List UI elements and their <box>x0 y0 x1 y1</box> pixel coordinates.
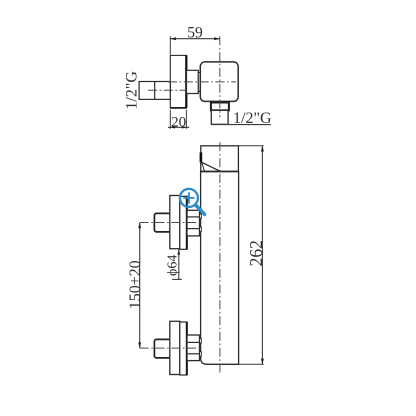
inlet pipe thread division <box>154 82 156 100</box>
top nut facet line upper <box>187 216 200 218</box>
bottom collar strip thick edge <box>186 322 188 375</box>
leader line phi64 <box>178 249 180 279</box>
dimension line 262 <box>261 146 263 364</box>
arrowhead 150 top <box>138 223 141 229</box>
top union centerline <box>140 222 203 224</box>
bottom nut facet line upper <box>187 341 200 343</box>
arrowhead 20 left <box>170 126 175 129</box>
arrowhead 59 left <box>170 37 176 40</box>
body vertical centerline <box>219 142 221 373</box>
step bushing behind block <box>187 70 199 93</box>
lever tip thick mark <box>200 152 203 162</box>
top nut tab upper <box>200 214 202 219</box>
bottom connection nut <box>187 335 200 361</box>
svg-text:1/2"G: 1/2"G <box>123 71 140 110</box>
extension line right of 20 <box>185 110 187 129</box>
handle cap <box>201 146 239 172</box>
bottom nut tab upper <box>200 339 202 344</box>
bottom nut tab lower <box>200 352 202 357</box>
mixer body bar <box>201 172 239 365</box>
leader tick phi64 <box>172 278 182 280</box>
bottom union centerline <box>140 347 203 349</box>
top collar strip <box>180 196 187 249</box>
arrowhead phi64 <box>177 249 180 254</box>
dimension line 20 <box>168 126 189 128</box>
svg-text:ϕ64: ϕ64 <box>165 255 180 276</box>
top nut tab lower <box>200 227 202 232</box>
arrowhead 262 bottom <box>261 359 264 365</box>
extension line left of 59 <box>169 36 171 54</box>
inlet pipe centerline <box>148 89 186 91</box>
wall flange right thick edge <box>185 55 187 108</box>
top nut facet line lower <box>187 228 200 230</box>
connector collar <box>198 73 200 92</box>
outlet label shelf line <box>211 124 270 126</box>
arrowhead 262 top <box>261 146 264 152</box>
dimension line 59 <box>170 38 220 40</box>
svg-text:262: 262 <box>246 240 266 266</box>
bottom nut facet line lower <box>187 353 200 355</box>
svg-text:150±20: 150±20 <box>127 260 144 309</box>
arrowhead 59 right <box>214 37 220 40</box>
wall flange plate <box>170 55 186 108</box>
inlet pipe 1/2"G <box>139 82 170 100</box>
top escutcheon <box>170 196 180 249</box>
elbow block <box>200 62 238 102</box>
body joint thick line <box>201 171 239 173</box>
dimension line 150±20 <box>139 223 141 349</box>
outlet nut <box>211 103 229 111</box>
svg-text:20: 20 <box>171 114 186 130</box>
bottom union square fitting <box>154 339 170 358</box>
extension line left of 20 <box>169 110 171 129</box>
wall flange bottom thick edge <box>170 107 186 109</box>
lever main diagonal <box>202 162 220 171</box>
top collar strip thick edge <box>186 196 188 249</box>
arrowhead 150 bottom <box>138 342 141 348</box>
lever lower diagonal <box>202 162 205 171</box>
magnifier zoom icon <box>180 189 205 214</box>
outlet pipe <box>211 110 228 124</box>
bottom escutcheon <box>170 321 180 374</box>
bottom collar strip <box>180 322 187 375</box>
extension line 262 bottom <box>239 363 264 365</box>
top connection nut <box>187 210 200 236</box>
svg-text:1/2"G: 1/2"G <box>233 110 272 127</box>
elbow block centerline horizontal <box>168 81 236 83</box>
extension line 262 top <box>238 145 263 147</box>
top union square fitting <box>154 213 170 232</box>
centerline vertical of elbow block <box>219 36 221 117</box>
arrowhead 20 right <box>182 126 187 129</box>
